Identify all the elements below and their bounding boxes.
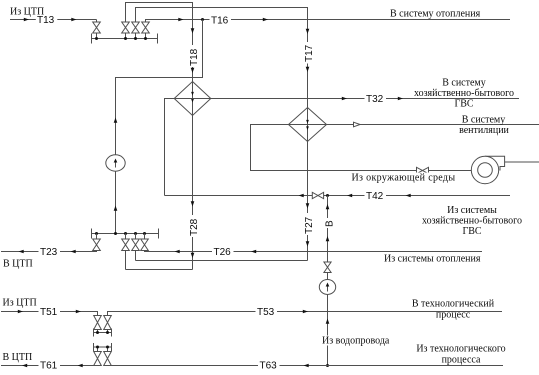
valve bottom manifold C (132, 239, 140, 251)
label Т17 (vertical) (303, 42, 313, 64)
svg-text:Т13: Т13 (37, 15, 55, 26)
svg-text:Из системы отопления: Из системы отопления (384, 254, 481, 265)
wire bottom header (92, 233, 159, 235)
wire valve to pump2 (327, 273, 329, 280)
header2 end tick left (91, 229, 93, 239)
wire T63 right (108, 365, 504, 367)
wire valve4 riser to T16 (146, 20, 511, 23)
header end tick right (157, 34, 159, 44)
wire bypass1a stub (97, 330, 99, 333)
arrow T61 left 2 (78, 364, 83, 368)
pump circulation (106, 155, 125, 171)
svg-text:Т26: Т26 (214, 247, 232, 258)
svg-text:Т51: Т51 (40, 307, 58, 318)
arrow T53 right (303, 310, 308, 314)
arrow T16 flow right (178, 18, 183, 22)
svg-text:ГВС: ГВС (454, 99, 473, 110)
junction header2 valve A (95, 232, 98, 235)
junction bypass2b (106, 346, 109, 349)
svg-text:Т18: Т18 (189, 48, 200, 66)
valve bottom manifold B (122, 239, 130, 251)
junction header valve4 (144, 37, 147, 40)
wire T32 to GVS (211, 98, 519, 100)
wire through HE1 (192, 82, 194, 116)
wire bypass header 2 (94, 346, 112, 348)
arrow water riser up (326, 204, 330, 209)
valve top manifold 3 (132, 22, 140, 33)
svg-text:В ЦТП: В ЦТП (3, 352, 33, 363)
arrow T42 left 2 (347, 194, 352, 198)
arrow HE1 internal flow 2 (191, 99, 194, 103)
svg-text:вентиляции: вентиляции (459, 125, 509, 136)
svg-text:хозяйственно-бытового: хозяйственно-бытового (422, 216, 522, 227)
wire valve4 stub (145, 33, 147, 39)
arrow T63 left (304, 364, 309, 368)
arrow T32 right (342, 97, 347, 101)
wire pump discharge crossover (116, 20, 203, 234)
junction header valve3 (134, 37, 137, 40)
label Т53 (256, 307, 278, 317)
valve bypass 1b (104, 316, 112, 330)
fan casing (485, 156, 505, 170)
wire valve1 to header (96, 33, 98, 39)
bypass header1 tick left (93, 329, 95, 337)
valve top manifold 2 (122, 22, 130, 33)
wire T42 (165, 195, 511, 197)
wire bypass2b stub (107, 347, 109, 352)
wire valve D stub (144, 234, 146, 240)
svg-text:Т53: Т53 (257, 307, 275, 318)
arrow T51 right (18, 310, 23, 314)
wire T26 from heating return (145, 251, 483, 252)
wire valve2 stub (125, 33, 127, 39)
arrow pump riser up 2 (114, 206, 118, 211)
arrow T32 right 2 (398, 97, 403, 101)
arrow T42 left 3 (406, 194, 411, 198)
label Т18 (vertical) (188, 45, 198, 67)
wire valve B drop (125, 251, 127, 270)
header end tick left (91, 34, 93, 44)
label Из окружающей среды (349, 173, 441, 183)
wire valve C drop (135, 251, 137, 261)
arrow water riser up 2 (326, 236, 330, 241)
fan impeller (471, 156, 498, 183)
arrow T23 left (19, 250, 24, 254)
label Т26 (212, 247, 234, 256)
valve air intake (417, 167, 429, 173)
heat exchanger HE2 (289, 108, 327, 142)
arrow T18 down 2 (191, 68, 195, 73)
svg-text:Т27: Т27 (304, 216, 315, 234)
junction header2 valve D (143, 232, 146, 235)
junction bypass1b (106, 331, 109, 334)
svg-text:Т61: Т61 (40, 361, 58, 372)
label Т28 (vertical) (188, 215, 198, 237)
valve water makeup (324, 262, 331, 273)
junction T16 pump riser (201, 18, 204, 21)
arrow HE2 internal flow 2 (306, 126, 309, 130)
wire water riser upper (327, 196, 329, 263)
wire bypass header 1 (94, 332, 112, 334)
arrow T27 down 2 (306, 241, 310, 246)
valve top manifold 4 (142, 22, 150, 33)
arrow T17 down 2 (306, 67, 310, 72)
wire riser valve2 to T18 jumper (126, 3, 193, 23)
wire riser valve3 to T17 jumper (136, 8, 308, 23)
wire T27 riser (307, 142, 309, 261)
wire T42 riser to HE1 (165, 99, 175, 196)
arrow T28 down (191, 201, 195, 206)
junction header2 valve B (124, 232, 127, 235)
arrow T28 down 2 (191, 253, 195, 258)
svg-text:В ЦТП: В ЦТП (3, 258, 33, 269)
wire water riser lower (327, 295, 329, 366)
arrow water riser up 3 (326, 319, 330, 324)
junction water riser T63 (326, 364, 329, 367)
junction header valve2 (124, 37, 127, 40)
wire valve B stub (125, 234, 127, 240)
valve top manifold 1 (93, 22, 101, 33)
arrow T61 left (22, 364, 27, 368)
svg-text:Из системы: Из системы (447, 205, 497, 216)
wire T28 to valve B (126, 269, 193, 271)
label Т23 (39, 247, 61, 256)
arrow T42 left (299, 194, 304, 198)
arrow T13 flow right 2 (71, 18, 76, 22)
valve T42 makeup (312, 192, 323, 198)
junction header valve1 (95, 37, 98, 40)
arrow T13 flow right (24, 18, 29, 22)
arrow T18 down (191, 28, 195, 33)
svg-text:ГВС: ГВС (462, 226, 481, 237)
wire T18 riser upper (192, 22, 194, 82)
label Т51 (39, 307, 61, 317)
svg-text:процесса: процесса (442, 355, 481, 366)
svg-text:В: В (325, 220, 336, 227)
svg-text:Из ЦТП: Из ЦТП (3, 297, 37, 308)
junction header2 valve C (134, 232, 137, 235)
label Т16 (210, 15, 232, 24)
arrow T16 flow right 2 (263, 18, 268, 22)
arrow T23 left 2 (71, 250, 76, 254)
wire T17 riser upper (307, 22, 309, 108)
wire valve A stub (96, 234, 98, 240)
svg-text:Из водопровода: Из водопровода (322, 336, 390, 347)
wire T13 from ЦТП (10, 19, 97, 21)
wire T61 left (1, 365, 98, 367)
wire bypass2a stub (97, 347, 99, 352)
svg-text:Из технологического: Из технологического (416, 344, 505, 355)
svg-text:Т32: Т32 (366, 94, 384, 105)
valve bypass 1a (94, 316, 102, 330)
wire HE2 air loop (251, 125, 472, 171)
svg-text:Т16: Т16 (211, 16, 229, 27)
svg-text:Т63: Т63 (260, 361, 278, 372)
label Т13 (36, 15, 58, 24)
arrow HE2 internal flow (306, 120, 309, 124)
arrow T27 down (306, 203, 310, 208)
svg-text:В систему: В систему (442, 78, 486, 89)
label Т61 (39, 361, 61, 371)
header2 end tick right (158, 229, 160, 239)
valve bypass 2b (104, 352, 112, 366)
arrow T17 down (306, 29, 310, 34)
pump makeup (319, 280, 335, 295)
wire T13 drop to valve (96, 20, 98, 23)
label Из водопровода (320, 336, 376, 346)
wire through HE1 horizontal (174, 98, 211, 100)
label Т32 (365, 94, 387, 104)
wire valve C stub (135, 234, 137, 240)
arrow T26 left (175, 250, 180, 254)
junction T42 water riser (326, 194, 329, 197)
label Т27 (vertical) (303, 213, 313, 235)
label Т42 (365, 191, 387, 201)
wire T28 riser (192, 116, 194, 270)
wire top header (92, 38, 158, 40)
valve bottom manifold A (93, 239, 101, 251)
svg-text:В систему: В систему (462, 114, 506, 125)
wire T53 right (108, 312, 503, 316)
arrow HE1 internal flow (191, 92, 194, 96)
valve bypass 2a (94, 352, 102, 366)
wire vent supply (327, 124, 539, 126)
svg-text:хозяйственно-бытового: хозяйственно-бытового (414, 88, 514, 99)
wire valve3 stub (135, 33, 137, 39)
bypass header2 tick left (93, 343, 95, 351)
arrow T51 right 2 (76, 310, 81, 314)
wire through HE2 (307, 108, 309, 142)
arrow pump riser up (114, 118, 118, 123)
label В (vertical) (324, 218, 334, 228)
svg-text:В систему отопления: В систему отопления (390, 9, 481, 20)
wire T23 to ЦТП (1, 251, 97, 252)
junction bypass1a (96, 331, 99, 334)
wire T27 to valve C (136, 260, 308, 262)
valve bottom manifold D (141, 239, 149, 251)
bypass header1 tick right (111, 329, 113, 337)
svg-text:В технологический: В технологический (412, 299, 495, 310)
arrow T26 left 2 (251, 250, 256, 254)
open arrow vent flow (354, 122, 361, 127)
wire T51 left (1, 312, 98, 316)
svg-text:Т42: Т42 (366, 191, 384, 202)
label Т63 (258, 361, 280, 371)
wire through HE2 horizontal (289, 124, 327, 126)
svg-text:Из окружающей среды: Из окружающей среды (352, 173, 456, 184)
junction header2 pump riser (114, 232, 117, 235)
svg-text:процесс: процесс (436, 310, 471, 321)
bypass header2 tick right (111, 343, 113, 351)
svg-text:Т23: Т23 (40, 247, 58, 258)
wire fan outlet (505, 161, 539, 163)
wire bypass1b stub (107, 330, 109, 333)
junction bypass2a (96, 346, 99, 349)
heat exchanger HE1 (174, 82, 211, 116)
svg-text:Т28: Т28 (189, 218, 200, 236)
svg-text:Т17: Т17 (304, 44, 315, 62)
